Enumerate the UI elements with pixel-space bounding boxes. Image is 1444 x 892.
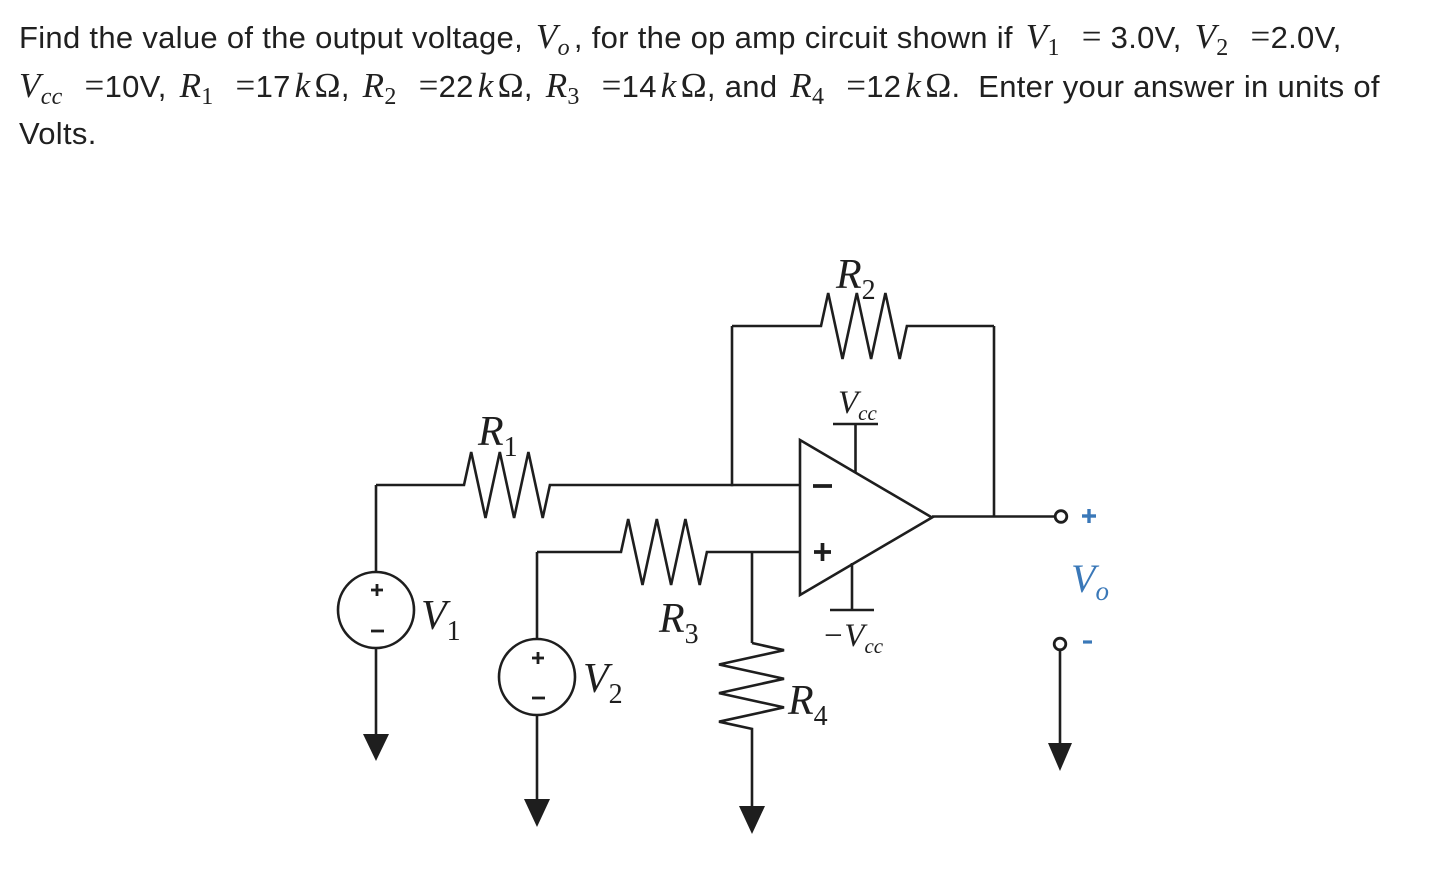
svg-text:R2: R2 [835, 252, 876, 306]
resistor R3 [537, 519, 800, 585]
wire from inverting node up to R2 [731, 326, 734, 486]
wire from V1 top to R1 [375, 485, 378, 572]
ground arrow under V2 [524, 799, 550, 827]
Vcc supply bar [833, 424, 878, 473]
voltage source V2 [499, 639, 575, 715]
-Vcc supply bar [830, 563, 874, 610]
svg-text:−Vcc: −Vcc [822, 618, 884, 658]
output plus terminal [1055, 511, 1067, 523]
svg-text:R1: R1 [477, 409, 518, 463]
svg-text:V1: V1 [421, 593, 461, 647]
resistor R1 [376, 452, 800, 518]
blue plus sign at output [1082, 509, 1096, 523]
op-amp U1 triangle [800, 440, 932, 595]
svg-text:Vcc: Vcc [838, 385, 877, 425]
op-amp non-inverting input plus sign [814, 543, 831, 561]
wire Vo minus terminal to ground [1059, 650, 1062, 744]
ground arrow under R4 [739, 806, 765, 834]
svg-text:V2: V2 [583, 656, 623, 710]
resistor R4 [719, 643, 784, 807]
svg-text:R4: R4 [787, 678, 828, 732]
svg-text:Vo: Vo [1071, 556, 1109, 606]
resistor R2 [732, 293, 994, 359]
op-amp inverting input minus sign [813, 484, 832, 488]
problem statement line 2 [19, 68, 1380, 103]
output minus terminal [1054, 638, 1066, 650]
ground arrow under Vo minus terminal [1048, 743, 1072, 771]
wire op-amp output to terminal [932, 515, 1055, 518]
problem statement line 1 [19, 19, 1342, 54]
wire node B down to R4 [751, 552, 754, 643]
V1 polarity marks [371, 584, 384, 631]
V2 polarity marks [532, 652, 545, 698]
wire V1 bottom to ground [375, 648, 378, 735]
problem statement line 3 [19, 118, 97, 149]
wire V2 bottom to ground [536, 715, 539, 800]
wire from V2 top to R3 [536, 552, 539, 639]
svg-text:R3: R3 [658, 596, 699, 650]
ground arrow under V1 [363, 734, 389, 761]
wire from R2 down to output [993, 326, 996, 518]
voltage source V1 [338, 572, 414, 648]
blue minus sign at lower terminal [1083, 640, 1092, 643]
